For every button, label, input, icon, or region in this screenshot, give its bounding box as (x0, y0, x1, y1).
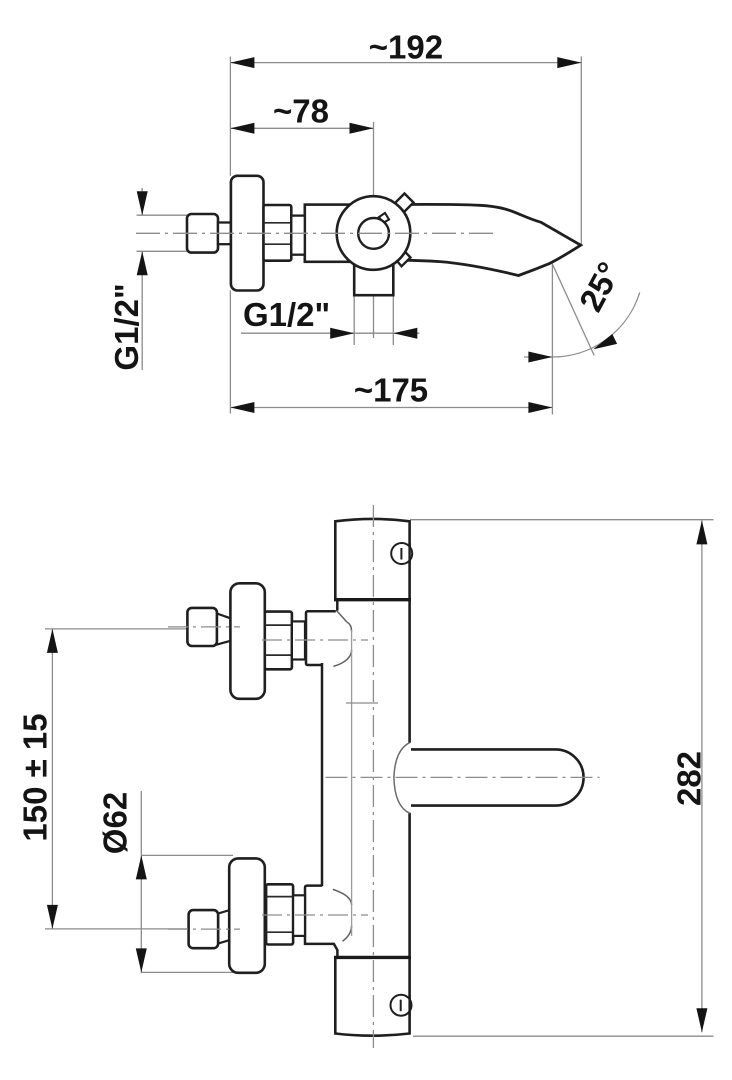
arrow G1/2 bottom right (393, 328, 417, 339)
wire: 25 degree slanted reference line (538, 233, 594, 356)
arrow ~175 left (230, 402, 254, 413)
spout (398, 204, 581, 275)
top connector boss-axis centerline (262, 639, 368, 641)
bottom connector boss-axis centerline (262, 914, 368, 916)
dimension line ~175 (230, 407, 552, 409)
top cap (335, 519, 409, 600)
centerline horizontal (top view) (136, 232, 496, 234)
wire: leader to arc bottom arrow (524, 356, 552, 358)
wire: extension line spout tip (580, 57, 582, 245)
spout centerline (front view) (326, 776, 600, 778)
body column edges (336, 600, 339, 611)
bottom connector fitting (189, 910, 219, 948)
arrow ~78 right (350, 123, 374, 134)
diverter tab on valve top right (395, 194, 414, 213)
cross tick on centerline (346, 702, 378, 704)
arrow G1/2 bottom left (330, 328, 354, 339)
top boss outline (306, 611, 336, 665)
wall fitting (187, 214, 218, 253)
top connector wall-axis centerline (168, 626, 240, 628)
top screw (391, 543, 412, 564)
bottom screw (391, 995, 412, 1016)
collar (291, 216, 305, 255)
arrow dia62 bottom (136, 948, 147, 972)
wire: 25 degree dimension arc (552, 292, 639, 357)
dimension line ~78 (230, 127, 373, 129)
vertical centerline (front view) (372, 505, 374, 1048)
arrow arc upper (593, 334, 617, 349)
wire: 282 ext line bottom (413, 1035, 714, 1037)
svg-text:282: 282 (671, 751, 708, 806)
wire: extension line valve centerline vertical (373, 122, 375, 338)
top connector nut (265, 612, 292, 670)
svg-text:~192: ~192 (369, 29, 443, 66)
svg-text:~175: ~175 (354, 372, 428, 409)
bottom connector cone (218, 910, 230, 944)
top connector escutcheon (230, 583, 264, 699)
neck between fitting and escutcheon (218, 223, 231, 245)
arrow ~192 right (557, 57, 581, 68)
svg-text:G1/2": G1/2" (108, 283, 145, 370)
wire: vertical line below spout lower tip (551, 265, 553, 415)
svg-text:25°: 25° (572, 256, 628, 317)
bottom connector collar (293, 895, 305, 936)
arrow ~78 left (230, 123, 254, 134)
top connector fitting (187, 608, 217, 646)
bottom connector nut facets (266, 897, 293, 933)
bottom cap (335, 957, 409, 1035)
svg-text:~78: ~78 (273, 93, 329, 130)
arrow G1/2 vertical bottom (137, 251, 148, 275)
top boss fill (306, 611, 352, 666)
top cap bottom heavy edge (334, 598, 411, 601)
bottom cap top heavy edge (334, 956, 411, 959)
dimension line 150 (51, 629, 53, 929)
arrow ~175 right (528, 402, 552, 413)
valve outer circle (337, 196, 411, 270)
wire: 150 ext line bottom (45, 928, 188, 930)
top boss side arcs (334, 622, 352, 666)
top connector cone (217, 614, 231, 645)
bottom boss outline (305, 886, 337, 958)
wire: 282 ext line top (410, 519, 714, 521)
arrow dia62 top (136, 855, 147, 879)
top connector nut facets (265, 625, 292, 655)
arrow 282 bottom (696, 1008, 707, 1032)
spout bar fill (front view) (402, 749, 584, 805)
wire: G1/2 bottom ext line right (392, 295, 394, 345)
hex nut facet lines (264, 223, 292, 244)
faucet body left block (305, 205, 353, 262)
svg-text:150 ± 15: 150 ± 15 (17, 713, 54, 841)
escutcheon plate (231, 176, 264, 291)
dimension line G1/2 left vertical (141, 188, 143, 370)
bottom boss side arcs (333, 889, 352, 941)
arrow 150 bottom (47, 905, 58, 929)
wire: G1/2 bottom ext line left (353, 295, 355, 345)
inner profile line (351, 630, 353, 936)
dimension line G1/2 bottom (241, 332, 420, 334)
arrow G1/2 vertical top (137, 191, 148, 215)
wire: G1/2 left ext line top (137, 214, 191, 216)
svg-text:Ø62: Ø62 (97, 792, 134, 854)
notch tab on inner circle (379, 213, 389, 223)
valve inner circle (358, 218, 389, 249)
arrow 150 top (47, 629, 58, 653)
body column fill (322, 600, 410, 958)
wire: 150 ext line top (45, 628, 188, 630)
dimension line dia62 (140, 791, 142, 973)
lug on valve bottom right (393, 248, 411, 266)
wire: dia62 ext line top (141, 854, 233, 856)
dimension line ~192 (230, 62, 581, 64)
bottom boss fill (305, 886, 352, 944)
wire: extension line left (wall plane) lower segment (229, 291, 231, 414)
arrow ~192 left (230, 57, 254, 68)
arrow 282 top (696, 520, 707, 544)
bottom connector escutcheon (229, 858, 265, 972)
arrow arc bottom (528, 352, 552, 363)
spout bar outline (front view) (411, 749, 584, 805)
bottom connector wall-axis centerline (168, 928, 240, 930)
top boss chamfer (336, 610, 347, 622)
wire: G1/2 left ext line bottom (137, 250, 191, 252)
spout flare (front view) (394, 743, 410, 814)
bottom connector nut (266, 884, 293, 944)
top connector collar (292, 621, 305, 659)
dimension line 282 (701, 520, 703, 1032)
shower outlet block (354, 262, 393, 295)
wire: dia62 ext line bottom (141, 971, 233, 973)
wire: extension line left (wall plane) upper segment (229, 57, 231, 176)
svg-text:G1/2": G1/2" (243, 296, 330, 333)
hex nut (264, 205, 292, 261)
